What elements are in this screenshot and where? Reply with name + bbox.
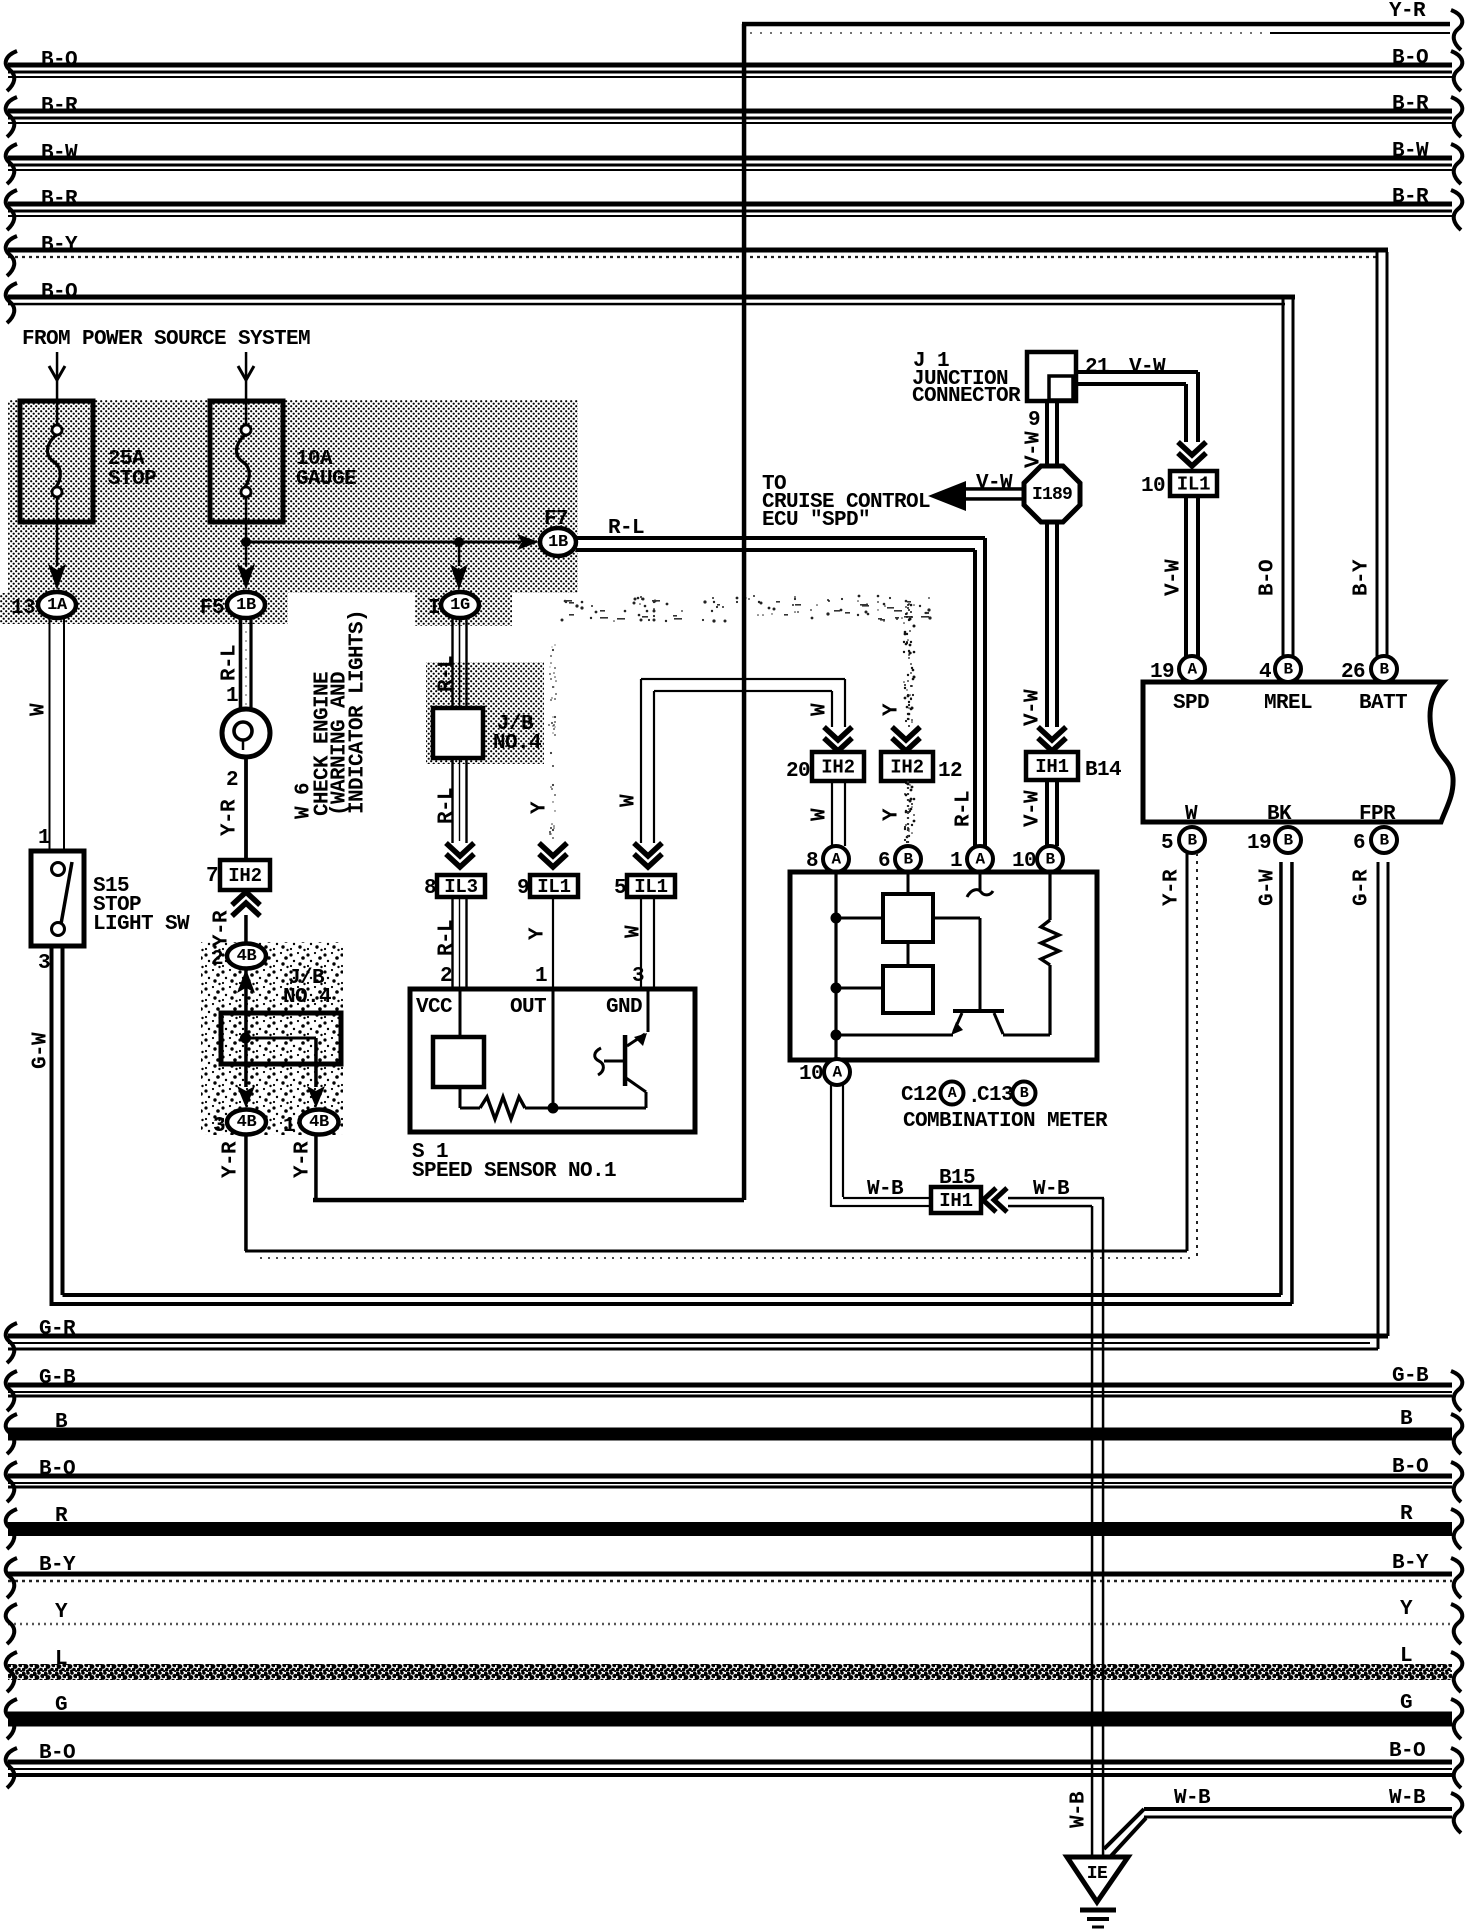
svg-text:VCC: VCC: [416, 996, 453, 1019]
svg-text:Y: Y: [527, 927, 550, 940]
svg-text:B: B: [1400, 1408, 1413, 1431]
svg-text:IH2: IH2: [821, 757, 855, 779]
svg-text:R-L: R-L: [436, 788, 459, 824]
svg-text:W-B: W-B: [1174, 1787, 1211, 1810]
svg-text:12: 12: [938, 760, 962, 783]
svg-text:W: W: [1185, 803, 1198, 826]
svg-text:R-L: R-L: [953, 791, 976, 827]
svg-text:IL1: IL1: [537, 876, 571, 898]
svg-text:NO.4: NO.4: [493, 732, 541, 755]
svg-text:G-B: G-B: [1392, 1365, 1429, 1388]
svg-text:G: G: [1400, 1692, 1412, 1715]
svg-text:MREL: MREL: [1264, 692, 1312, 715]
svg-text:Y: Y: [529, 801, 552, 814]
svg-text:LIGHT SW: LIGHT SW: [93, 913, 190, 936]
svg-text:Y: Y: [55, 1601, 68, 1624]
svg-text:A: A: [831, 851, 841, 869]
svg-text:GND: GND: [606, 996, 642, 1019]
svg-text:STOP: STOP: [108, 468, 156, 491]
svg-text:19: 19: [1247, 832, 1271, 855]
svg-text:BATT: BATT: [1359, 692, 1407, 715]
svg-text:1B: 1B: [236, 596, 256, 615]
svg-text:IH1: IH1: [939, 1190, 973, 1212]
svg-text:G-R: G-R: [39, 1318, 76, 1341]
svg-text:R-L: R-L: [436, 920, 459, 956]
svg-text:3: 3: [213, 1115, 225, 1138]
svg-text:G-B: G-B: [39, 1367, 76, 1390]
svg-text:26: 26: [1341, 661, 1365, 684]
svg-text:1: 1: [226, 685, 238, 708]
svg-text:B-R: B-R: [41, 188, 78, 211]
svg-text:IH2: IH2: [228, 865, 262, 887]
svg-text:R-L: R-L: [219, 645, 242, 681]
svg-text:4B: 4B: [237, 947, 257, 966]
svg-text:1: 1: [38, 827, 50, 850]
svg-text:G-W: G-W: [30, 1032, 53, 1069]
svg-text:Y-R: Y-R: [219, 799, 242, 836]
svg-text:B: B: [1379, 661, 1389, 679]
svg-text:Y-R: Y-R: [1161, 869, 1184, 906]
svg-text:1: 1: [535, 965, 547, 988]
svg-text:V-W: V-W: [1129, 356, 1166, 379]
svg-text:10: 10: [1141, 475, 1165, 498]
svg-text:2: 2: [211, 948, 223, 971]
svg-text:W-B: W-B: [1389, 1787, 1426, 1810]
svg-text:W-B: W-B: [867, 1178, 904, 1201]
svg-text:R: R: [55, 1505, 68, 1528]
svg-text:W: W: [809, 808, 832, 821]
svg-text:A: A: [832, 1064, 842, 1082]
svg-text:B-Y: B-Y: [1392, 1552, 1429, 1575]
svg-text:V-W: V-W: [976, 472, 1013, 495]
svg-text:IE: IE: [1087, 1864, 1108, 1884]
svg-text:10: 10: [799, 1063, 823, 1086]
svg-text:Y-R: Y-R: [220, 1141, 243, 1178]
svg-text:GAUGE: GAUGE: [296, 468, 356, 491]
svg-text:SPD: SPD: [1173, 692, 1209, 715]
svg-text:1B: 1B: [548, 533, 568, 552]
svg-text:Y: Y: [881, 808, 904, 821]
svg-text:F5: F5: [200, 597, 224, 620]
svg-text:C13: C13: [977, 1084, 1013, 1107]
svg-text:B: B: [1283, 661, 1293, 679]
svg-text:V-W: V-W: [1022, 689, 1045, 726]
svg-text:B: B: [1283, 832, 1293, 850]
svg-text:ECU "SPD": ECU "SPD": [762, 509, 870, 532]
svg-text:1G: 1G: [450, 596, 470, 615]
svg-text:1A: 1A: [47, 596, 68, 615]
svg-text:B-W: B-W: [41, 142, 78, 165]
svg-text:A: A: [975, 851, 985, 869]
svg-text:B: B: [1379, 832, 1389, 850]
svg-text:W-B: W-B: [1033, 1178, 1070, 1201]
svg-text:I189: I189: [1032, 485, 1072, 505]
svg-text:B-O: B-O: [41, 49, 77, 72]
svg-text:B: B: [55, 1411, 68, 1434]
svg-text:5: 5: [1161, 832, 1173, 855]
svg-text:V-W: V-W: [1022, 790, 1045, 827]
svg-text:G-R: G-R: [1351, 869, 1374, 906]
svg-text:W: W: [28, 703, 51, 716]
svg-text:NO.4: NO.4: [283, 986, 331, 1009]
svg-text:L: L: [55, 1648, 67, 1671]
svg-text:IH1: IH1: [1035, 756, 1069, 778]
svg-text:9: 9: [517, 877, 529, 900]
svg-text:BK: BK: [1267, 803, 1292, 826]
svg-text:4: 4: [1259, 661, 1271, 684]
svg-text:Y-R: Y-R: [1389, 0, 1426, 23]
svg-text:COMBINATION METER: COMBINATION METER: [903, 1110, 1108, 1133]
svg-text:Y: Y: [881, 703, 904, 716]
svg-text:A: A: [1187, 661, 1197, 679]
svg-text:6: 6: [1353, 832, 1365, 855]
svg-text:3: 3: [632, 965, 644, 988]
svg-text:B-O: B-O: [1392, 1456, 1428, 1479]
svg-text:Y: Y: [1400, 1598, 1413, 1621]
svg-text:V-W: V-W: [1163, 559, 1186, 596]
svg-text:IL1: IL1: [1177, 474, 1211, 496]
svg-text:19: 19: [1150, 661, 1174, 684]
svg-text:Y-R: Y-R: [211, 910, 234, 947]
svg-text:B-R: B-R: [41, 95, 78, 118]
svg-text:B-O: B-O: [1389, 1740, 1425, 1763]
svg-text:7: 7: [206, 865, 218, 888]
svg-text:W: W: [623, 925, 646, 938]
svg-text:20: 20: [786, 760, 810, 783]
svg-text:R-L: R-L: [436, 656, 459, 692]
svg-text:B: B: [903, 851, 913, 869]
svg-text:CONNECTOR: CONNECTOR: [912, 385, 1021, 408]
svg-text:B-R: B-R: [1392, 93, 1429, 116]
svg-text:B14: B14: [1085, 759, 1121, 782]
svg-text:B-W: B-W: [1392, 140, 1429, 163]
svg-text:B-O: B-O: [1392, 47, 1428, 70]
svg-text:4B: 4B: [309, 1113, 329, 1132]
svg-text:INDICATOR LIGHTS): INDICATOR LIGHTS): [347, 610, 370, 814]
svg-text:1: 1: [283, 1115, 295, 1138]
svg-text:L: L: [1400, 1645, 1412, 1668]
svg-text:G-W: G-W: [1257, 869, 1280, 906]
svg-text:V-W: V-W: [1023, 431, 1046, 468]
svg-text:B-O: B-O: [1257, 560, 1280, 596]
svg-text:3: 3: [38, 952, 50, 975]
svg-text:A: A: [948, 1085, 957, 1102]
svg-text:B: B: [1045, 851, 1055, 869]
svg-text:21: 21: [1085, 356, 1109, 379]
svg-text:SPEED SENSOR NO.1: SPEED SENSOR NO.1: [412, 1160, 616, 1183]
svg-text:IL1: IL1: [634, 876, 668, 898]
svg-text:4B: 4B: [237, 1113, 257, 1132]
svg-text:G: G: [55, 1694, 67, 1717]
svg-text:5: 5: [614, 877, 626, 900]
svg-text:B: B: [1187, 832, 1197, 850]
svg-text:OUT: OUT: [510, 996, 546, 1019]
svg-text:B-O: B-O: [39, 1742, 75, 1765]
svg-text:B-Y: B-Y: [1351, 559, 1374, 596]
svg-text:W-B: W-B: [1068, 1791, 1091, 1828]
svg-text:I: I: [428, 597, 440, 620]
svg-text:B-O: B-O: [39, 1458, 75, 1481]
svg-text:IH2: IH2: [890, 757, 924, 779]
svg-text:R: R: [1400, 1503, 1413, 1526]
svg-text:Y-R: Y-R: [292, 1141, 315, 1178]
svg-text:B-R: B-R: [1392, 186, 1429, 209]
svg-text:B-O: B-O: [41, 281, 77, 304]
svg-text:2: 2: [226, 769, 238, 792]
svg-text:FROM POWER SOURCE SYSTEM: FROM POWER SOURCE SYSTEM: [22, 328, 310, 351]
svg-text:W: W: [809, 703, 832, 716]
svg-text:C12: C12: [901, 1084, 937, 1107]
svg-text:IL3: IL3: [444, 876, 478, 898]
svg-text:2: 2: [440, 965, 452, 988]
svg-text:B-Y: B-Y: [39, 1554, 76, 1577]
svg-text:FPR: FPR: [1359, 803, 1396, 826]
svg-text:8: 8: [424, 877, 436, 900]
svg-text:B-Y: B-Y: [41, 234, 78, 257]
svg-text:13: 13: [11, 597, 35, 620]
svg-text:W: W: [618, 794, 641, 807]
svg-text:B: B: [1020, 1085, 1029, 1102]
svg-text:9: 9: [1028, 409, 1040, 432]
